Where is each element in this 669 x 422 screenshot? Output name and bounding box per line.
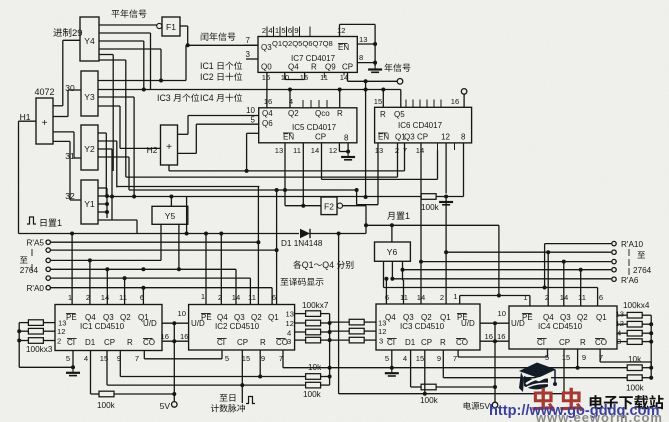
svg-text:R'A5: R'A5 (27, 239, 45, 248)
ground IC7 (374, 64, 376, 70)
inverter F2 (321, 197, 337, 215)
resistor 100kx7 row5 (330, 321, 350, 323)
IC U4 CD4510 (509, 306, 617, 349)
decoder Y1 (81, 180, 98, 224)
wire Y1 out bottom (98, 219, 137, 221)
wire Y4 out5 (99, 54, 113, 56)
svg-text:+: + (42, 118, 48, 129)
svg-text:100k: 100k (97, 401, 116, 410)
wire IC6 pin8 riser (463, 143, 465, 197)
svg-text:1: 1 (523, 293, 527, 302)
decoder Y3 (81, 71, 98, 116)
wire F1 output (180, 25, 188, 27)
wire U/D link IC1-IC2 (162, 322, 189, 324)
terminal 5V (172, 402, 178, 408)
svg-text:12: 12 (337, 26, 345, 35)
svg-text:15: 15 (416, 354, 424, 363)
svg-text:IC2 CD4510: IC2 CD4510 (215, 322, 260, 331)
svg-text:8: 8 (359, 53, 363, 62)
svg-text:13: 13 (616, 310, 624, 319)
svg-text:F1: F1 (166, 22, 176, 32)
svg-text:16: 16 (262, 73, 270, 82)
svg-text:CO: CO (456, 338, 468, 347)
wire Y4 out2 (99, 32, 151, 34)
svg-text:Q3: Q3 (261, 43, 272, 52)
ground IC1 (72, 367, 74, 373)
gate H2 (161, 125, 178, 165)
resistor 100kx7 row4 (295, 339, 306, 341)
terminal RA10 (612, 241, 616, 245)
svg-text:9: 9 (582, 353, 586, 362)
wire IC3 pin6 riser (385, 279, 387, 304)
svg-text:30: 30 (65, 83, 75, 93)
svg-text:U/D: U/D (191, 319, 205, 328)
wire H1 out to Y3 (53, 116, 68, 118)
svg-text:3: 3 (287, 337, 291, 346)
decoder Y4 (80, 17, 99, 61)
wire IC4 pin6 riser (597, 288, 599, 307)
label Q1-Q4 to decoder (293, 261, 301, 269)
wire pin16 link IC1-IC2 (162, 340, 189, 342)
svg-text:12: 12 (329, 146, 337, 155)
svg-text:IC2: IC2 (200, 72, 214, 82)
svg-text:16: 16 (180, 332, 188, 341)
label base-29 (53, 28, 62, 36)
wire IC1 pin15 rail (106, 351, 108, 386)
label leap-year-signal (111, 10, 119, 18)
wire staircase S4 (106, 196, 421, 198)
svg-text:EN: EN (378, 133, 389, 142)
wire staircase S3a (117, 186, 260, 188)
IC7 top pin stubs (266, 27, 268, 37)
wire power5V column (494, 323, 496, 402)
wire IC5 pin12-8 ground (338, 143, 340, 152)
svg-text:13: 13 (286, 310, 294, 319)
svg-text:R'A10: R'A10 (621, 240, 643, 249)
svg-text:4: 4 (84, 354, 88, 363)
svg-text:CI: CI (217, 338, 225, 347)
svg-text:Q2: Q2 (120, 313, 131, 322)
svg-text:11: 11 (578, 293, 586, 302)
svg-text:IC1: IC1 (200, 61, 214, 71)
svg-text:R: R (380, 110, 386, 119)
wire IC2 R pin9 riser (259, 350, 261, 377)
wire resistor bus down (18, 323, 20, 368)
wire H1 out to Y4 (53, 105, 63, 107)
resistor 100k right (627, 375, 642, 381)
svg-text:CP: CP (559, 338, 570, 347)
wire Y4 out4b (125, 60, 127, 177)
wire addr L2 (51, 249, 277, 251)
svg-text:Q4: Q4 (262, 109, 273, 118)
wire IC6 pin14 long column (420, 143, 422, 262)
svg-text:IC3 CD4510: IC3 CD4510 (400, 322, 445, 331)
wire Y3 out3 (98, 96, 134, 98)
resistor 100kx4 row2 (617, 323, 627, 325)
svg-text:15: 15 (242, 354, 250, 363)
watermark chongchong red characters (532, 388, 555, 412)
svg-text:CI: CI (387, 338, 395, 347)
svg-text:Q4: Q4 (385, 313, 396, 322)
svg-text:8: 8 (461, 133, 466, 142)
svg-text:Q4: Q4 (85, 313, 96, 322)
wire month-set down right (498, 225, 500, 295)
wire mid bus (329, 314, 331, 386)
svg-text:PE: PE (66, 313, 77, 322)
wire PE line IC3-IC4 (460, 295, 530, 297)
svg-text:CO: CO (595, 338, 607, 347)
svg-text:100kx7: 100kx7 (302, 301, 329, 310)
terminal b2 (612, 268, 616, 272)
svg-text:CP: CP (417, 133, 428, 142)
svg-text:CP: CP (342, 63, 353, 72)
svg-text:EN: EN (283, 133, 294, 142)
svg-text:13: 13 (359, 35, 367, 44)
wire IC3 CP riser (424, 350, 426, 394)
wire staircase S3b (129, 189, 357, 191)
svg-text:CP: CP (237, 338, 248, 347)
svg-text:3: 3 (246, 50, 251, 59)
terminal a2 (46, 267, 50, 271)
svg-text:4: 4 (403, 354, 407, 363)
svg-text:5V: 5V (160, 401, 171, 411)
wire IC5 pin4 riser (289, 90, 291, 108)
svg-text:1: 1 (57, 218, 62, 228)
terminal year-signal (397, 79, 403, 85)
svg-text:D1: D1 (85, 338, 96, 347)
wire IC3 CO to IC4 CI (457, 350, 459, 357)
svg-text:2764: 2764 (633, 266, 652, 275)
wire IC6 pin16 terminal (463, 94, 465, 107)
wire IC6 R pin15 riser (382, 90, 384, 108)
watermark site name (590, 395, 603, 409)
svg-text:IC1 CD4510: IC1 CD4510 (80, 322, 125, 331)
box Y6 (375, 242, 411, 261)
svg-text:10: 10 (246, 106, 255, 115)
wire Y2 out1 (98, 132, 106, 134)
wire link year to lineB (365, 81, 367, 197)
resistor 100kx7 row3 (295, 331, 306, 333)
resistor 100kx7 row7 (330, 339, 350, 341)
svg-text:Y6: Y6 (387, 247, 398, 257)
terminal b4 (612, 250, 616, 254)
wire H2 out2 to IC5 pin5 (178, 152, 197, 154)
svg-text:1: 1 (453, 292, 457, 301)
svg-text:5: 5 (66, 354, 70, 363)
svg-text:Q2: Q2 (251, 313, 262, 322)
svg-text:Q3: Q3 (103, 313, 114, 322)
svg-text:100kx4: 100kx4 (623, 301, 650, 310)
wire F2 input line (285, 205, 321, 207)
svg-text:11: 11 (248, 293, 256, 302)
svg-text:CP: CP (104, 338, 115, 347)
svg-text:U/D: U/D (461, 319, 475, 328)
wire addr R6 (384, 287, 598, 289)
svg-text:12: 12 (57, 327, 65, 336)
svg-text:7: 7 (246, 36, 251, 45)
wire IC3 CI pin5 (391, 350, 393, 368)
wire 5V column (173, 323, 175, 401)
wire addr R2 (446, 251, 611, 253)
svg-text:Q1: Q1 (440, 313, 451, 322)
resistor 10k right (578, 367, 628, 369)
junction day line to F2 column (337, 232, 341, 236)
resistor 100kx4 row4 (617, 341, 627, 343)
wire IC7 pin16 to IC5 pin16 (266, 72, 268, 107)
wire Y2 out2 (98, 140, 117, 142)
svg-text:11: 11 (119, 293, 127, 302)
resistor 100kx3 a (28, 320, 43, 326)
svg-text:IC3: IC3 (157, 93, 171, 103)
label leapyear-signal2 (201, 32, 209, 40)
svg-text:Q1Q2Q5Q6Q7Q8: Q1Q2Q5Q6Q7Q8 (272, 39, 333, 48)
box Y5 (152, 206, 188, 224)
wire addr L1 (51, 241, 259, 243)
svg-text:12: 12 (441, 133, 450, 142)
svg-text:100k: 100k (420, 396, 439, 405)
svg-text:9: 9 (294, 26, 298, 35)
svg-text:4: 4 (268, 26, 272, 35)
wire Y2 out4 (98, 156, 129, 158)
svg-text:CO: CO (143, 338, 155, 347)
svg-text:Q2: Q2 (577, 313, 588, 322)
svg-text:16: 16 (497, 332, 505, 341)
svg-text:R: R (440, 338, 446, 347)
terminal RA6 (612, 277, 616, 281)
svg-text:Y5: Y5 (165, 211, 176, 221)
svg-text:Q3: Q3 (403, 313, 414, 322)
terminal b3 (612, 259, 616, 263)
wire Y4 to F1 (99, 24, 157, 26)
terminal pin16 IC6 (461, 89, 467, 95)
wire IC5 pin11 riser to F2 input (302, 143, 304, 206)
wire addr R4 (403, 269, 612, 271)
wire addr L4 (51, 268, 236, 270)
wire day-set line (19, 233, 300, 235)
terminal RA0 (46, 286, 50, 290)
resistor 100k D1 (99, 391, 114, 397)
wire IC2 pin2 riser (220, 234, 222, 305)
svg-text:16: 16 (451, 97, 459, 106)
wire IC3 pin4 D1 (410, 350, 412, 387)
svg-text:100k: 100k (421, 203, 440, 212)
ground IC3 (391, 368, 393, 374)
wire IC5 CP staircase (321, 143, 323, 180)
svg-text:Q4: Q4 (217, 313, 228, 322)
wire F2 output (343, 205, 367, 207)
label month-set (387, 212, 394, 220)
wire H1 out to Y1 (53, 140, 70, 142)
IC U5 CD4017 (259, 108, 357, 143)
wire right bus (650, 315, 652, 378)
svg-text:10: 10 (498, 309, 506, 318)
svg-text:5: 5 (251, 116, 256, 125)
wire IC4 CO stub (599, 349, 601, 362)
resistor 100kx4 row1 (617, 314, 627, 316)
svg-text:2: 2 (262, 26, 266, 35)
wire IC7 pin12 loop (339, 24, 341, 36)
svg-text:29: 29 (72, 28, 83, 39)
svg-text:12: 12 (378, 327, 386, 336)
wire Y4 out3 (99, 40, 144, 42)
resistor 100k mid (306, 382, 321, 388)
svg-text:5: 5 (225, 354, 229, 363)
svg-text:H2: H2 (147, 145, 158, 155)
svg-text:IC4 CD4510: IC4 CD4510 (538, 322, 583, 331)
svg-text:U/D: U/D (511, 319, 525, 328)
wire IC1 pin4 D1 (90, 351, 92, 395)
svg-text:IC6 CD4017: IC6 CD4017 (398, 121, 443, 130)
svg-text:Q9: Q9 (325, 63, 336, 72)
terminal a3 (46, 258, 50, 262)
resistor 100kx7 row6 (330, 330, 350, 332)
terminal a1 (46, 276, 50, 280)
svg-text:13: 13 (375, 146, 383, 155)
wire IC6 pin12 long column (445, 143, 447, 194)
terminal power-5V (492, 402, 498, 408)
IC U2 CD4510 (189, 305, 295, 351)
svg-text:16: 16 (485, 332, 493, 341)
IC6 top stubs (405, 100, 407, 108)
wire IC5 EN pin13 riser (284, 143, 286, 206)
svg-text:+: + (166, 142, 172, 153)
svg-text:4072: 4072 (34, 87, 54, 97)
svg-text:Y4: Y4 (84, 36, 95, 46)
wire IC6 pin2 riser (397, 143, 399, 177)
wire H2 bottom out staircase S1 (168, 165, 170, 171)
svg-text:IC5 CD4017: IC5 CD4017 (292, 123, 337, 132)
IC U7 CD4017 (258, 37, 357, 73)
wire Y4 out4 (99, 48, 161, 50)
svg-text:CP: CP (421, 338, 432, 347)
resistor 100kx3 b (28, 328, 43, 334)
IC6 bottom stubs (437, 143, 439, 150)
svg-text:5: 5 (385, 354, 389, 363)
svg-text:Q1: Q1 (268, 313, 279, 322)
wire IC4 CP riser (563, 349, 565, 394)
label day count pulse (220, 394, 228, 401)
junction F1/IC7 pin7 (186, 43, 190, 47)
svg-text:100kx3: 100kx3 (26, 345, 53, 354)
junction day line x186 (185, 232, 189, 236)
svg-text:13: 13 (275, 146, 283, 155)
svg-text:Q4: Q4 (543, 313, 554, 322)
svg-text:Y3: Y3 (84, 92, 95, 102)
svg-text:Q4: Q4 (288, 63, 299, 72)
svg-text:12: 12 (286, 319, 294, 328)
svg-text:R: R (337, 109, 343, 118)
label day-set (27, 217, 36, 224)
svg-text:3: 3 (379, 337, 383, 346)
wire addr R5 (392, 278, 611, 280)
svg-text:Q5: Q5 (394, 110, 405, 119)
svg-text:9: 9 (261, 354, 265, 363)
wire Y5 bottom risers (160, 224, 162, 260)
svg-text:U/D: U/D (143, 319, 157, 328)
svg-text:Y2: Y2 (84, 144, 95, 154)
wire IC5 R riser (339, 90, 341, 108)
wire IC7 pin11 stub (323, 72, 325, 78)
wire pin16 link IC3-IC4 (480, 340, 509, 342)
svg-text:D1: D1 (405, 338, 416, 347)
svg-text:16: 16 (264, 97, 272, 106)
wire H2 out1 to IC5 pin10 (178, 133, 189, 135)
svg-text:6: 6 (288, 26, 292, 35)
wire Y6 top riser (391, 225, 393, 242)
decoder Y2 (81, 125, 98, 170)
svg-text:EN: EN (338, 43, 349, 52)
wire addr L3 (51, 259, 161, 261)
wire IC5 EN stub (247, 132, 259, 134)
wire Y6 out to IC3 pin11 (403, 280, 405, 304)
wire IC3 pin9 rail (442, 350, 444, 378)
wire addr R1 RA10 (545, 243, 612, 245)
junction IC1-PE tap (70, 232, 74, 236)
svg-text:14: 14 (416, 146, 424, 155)
or-gate H1 4072 (36, 98, 53, 144)
wire IC2 CP pin15 riser to pulse (241, 350, 243, 403)
svg-text:2: 2 (57, 337, 61, 346)
IC5 top stubs (302, 100, 304, 108)
svg-text:7: 7 (453, 354, 457, 363)
wire F2 carry column down (338, 234, 340, 394)
svg-text:Q3: Q3 (560, 313, 571, 322)
svg-text:Y1: Y1 (84, 199, 95, 209)
resistor 10k mid (306, 374, 321, 380)
svg-text:Q1: Q1 (596, 313, 607, 322)
svg-text:16: 16 (161, 332, 169, 341)
svg-text:CI: CI (537, 338, 545, 347)
svg-text:H1: H1 (20, 112, 31, 122)
svg-text:Q2: Q2 (421, 313, 432, 322)
svg-text:Q0: Q0 (261, 63, 272, 72)
wire H1 input left (19, 120, 37, 122)
wire IC7 pin8 stub (357, 62, 375, 64)
wire rail to IC4 pin9 (392, 367, 578, 369)
svg-text:12: 12 (616, 319, 624, 328)
IC U3 CD4510 (376, 304, 480, 350)
svg-text:R: R (127, 338, 133, 347)
svg-text:100k: 100k (303, 390, 322, 399)
svg-text:7: 7 (135, 354, 139, 363)
resistor 100kx7 row1 (295, 313, 306, 315)
diode D1 (300, 229, 310, 238)
wire addr L5 (51, 277, 251, 279)
svg-text:R: R (580, 338, 586, 347)
resistor 100kx7 row2 (295, 322, 306, 324)
svg-text:Q4: Q4 (322, 260, 334, 270)
wire IC7 pin13 stub (357, 43, 375, 45)
wire CP rail months (339, 393, 564, 395)
svg-text:D1 1N4148: D1 1N4148 (281, 239, 323, 248)
wire addr R3 (421, 261, 611, 263)
svg-text:14: 14 (311, 146, 319, 155)
wire IC6 Q5 riser (400, 90, 402, 108)
svg-text:R: R (311, 63, 317, 72)
wire Y2 out3 (98, 148, 112, 150)
svg-text:CI: CI (67, 338, 75, 347)
wire IC7 pin10-pin15 loop (284, 72, 286, 79)
wire Y3 out4 (98, 105, 120, 107)
IC U6 CD4017 (375, 107, 472, 143)
svg-text:5: 5 (281, 26, 285, 35)
inverter F1 (162, 17, 180, 36)
wire Y1 outs (98, 187, 107, 189)
svg-text:Q3: Q3 (404, 133, 415, 142)
wire line-B Y3 to IC6 (98, 89, 401, 91)
svg-text:www.eeworm.com: www.eeworm.com (535, 410, 663, 422)
svg-text:IC4: IC4 (200, 93, 214, 103)
